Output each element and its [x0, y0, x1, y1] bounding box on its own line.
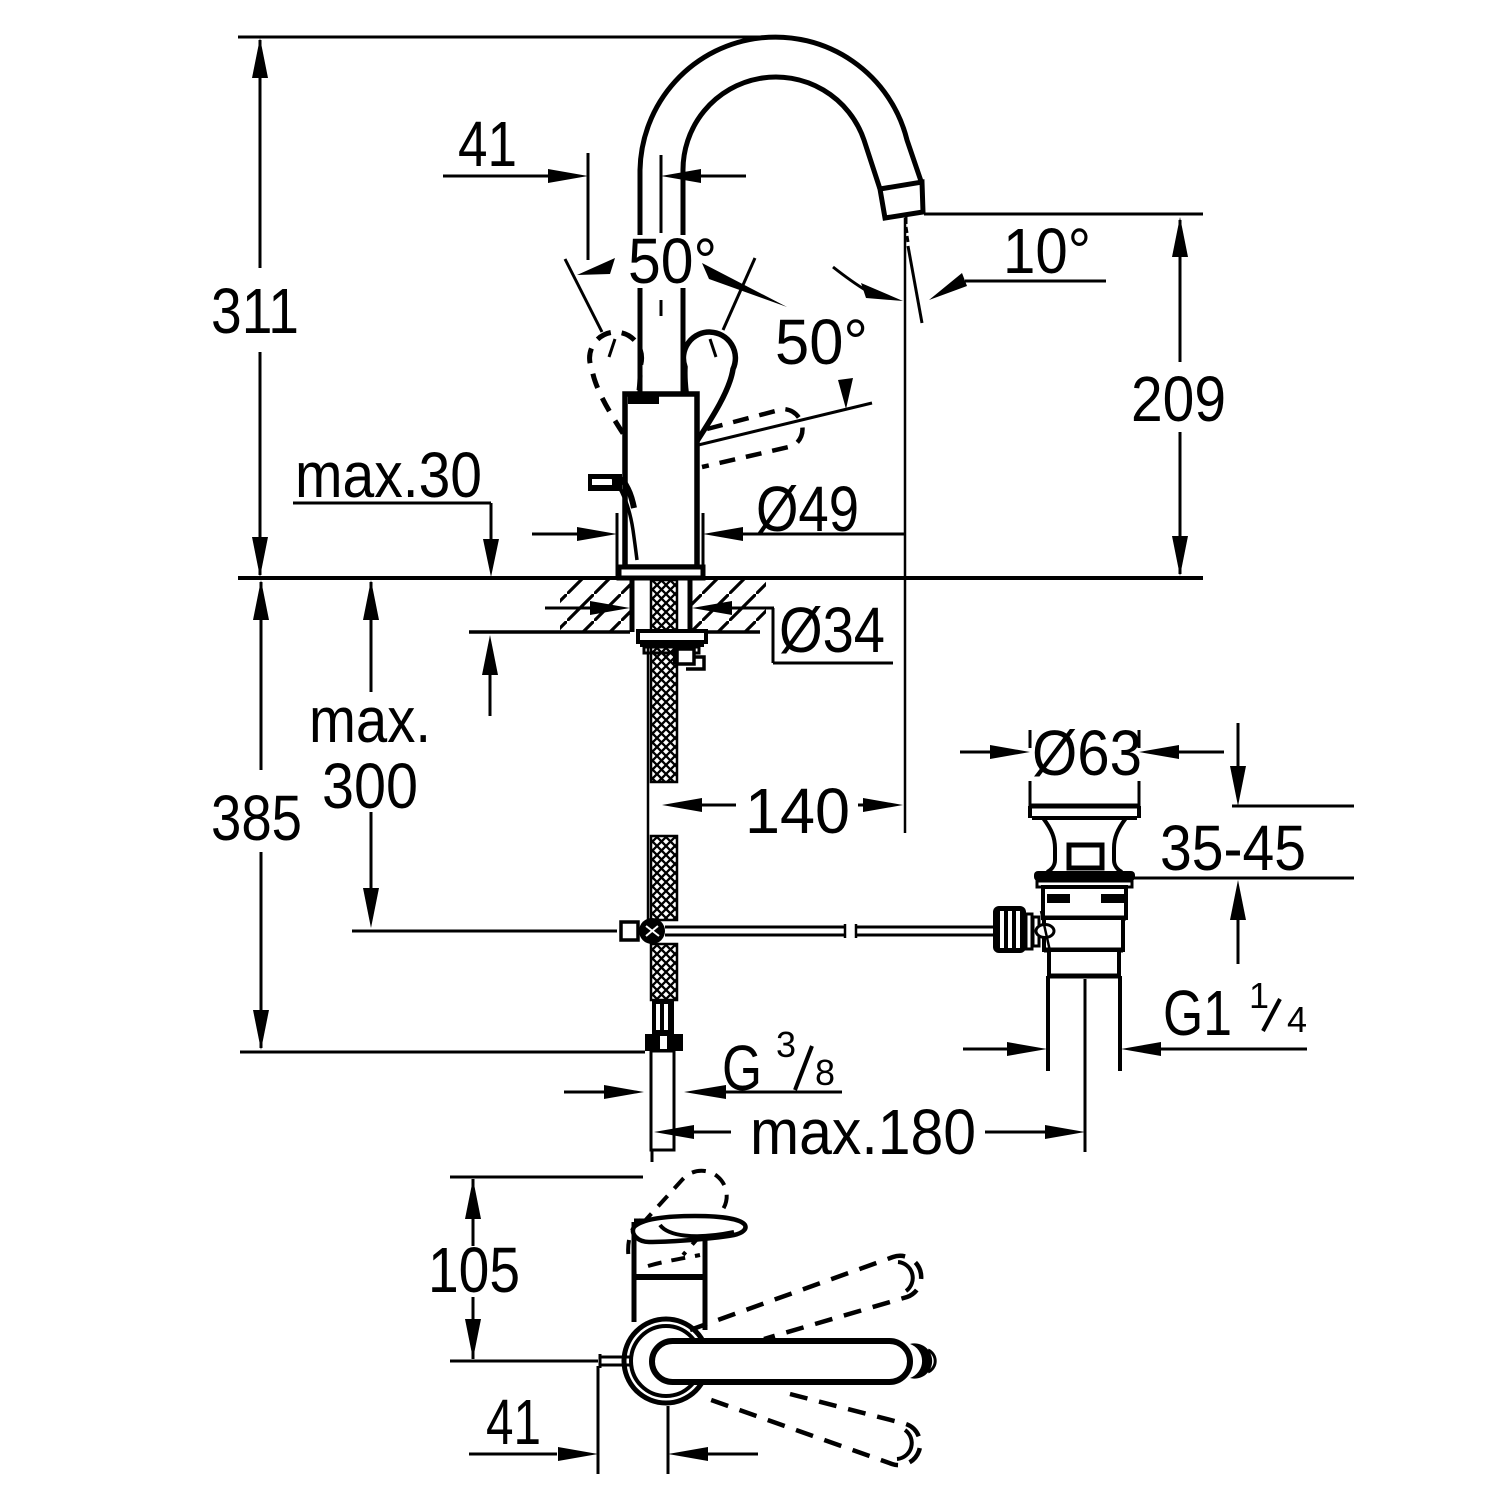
- svg-text:10°: 10°: [1003, 215, 1091, 287]
- angle arrowhead right: [702, 263, 787, 307]
- drain clamp section: [1049, 950, 1119, 976]
- dimension 311 arrow up: [252, 38, 268, 78]
- dimension max.180: [654, 1125, 694, 1139]
- angle 10 deg leader: [965, 280, 1106, 283]
- svg-text:8: 8: [815, 1052, 835, 1093]
- spout gooseneck outer contour: [640, 37, 922, 394]
- drain flange: [1030, 804, 1139, 809]
- counter slab hatching right: [690, 580, 766, 632]
- dimension 140: [662, 798, 702, 812]
- dimension max.300: [370, 582, 373, 692]
- svg-text:311: 311: [211, 275, 299, 347]
- mounting nut: [638, 631, 706, 642]
- top view: dimension 105: [450, 1176, 643, 1179]
- counter underside line: [469, 630, 630, 634]
- top view: handle blade: [633, 1216, 746, 1242]
- svg-text:209: 209: [1131, 363, 1226, 435]
- dimension 209 top reference line: [924, 213, 1203, 216]
- G3/8 nut: [645, 1034, 683, 1051]
- svg-text:max.: max.: [309, 684, 431, 756]
- svg-text:Ø63: Ø63: [1032, 717, 1142, 789]
- G3/8 dimension: [564, 1091, 604, 1094]
- dimension 385 bottom reference line: [240, 1051, 645, 1054]
- G3/8 hose ferrule: [652, 1000, 674, 1034]
- drain square knob: [1069, 845, 1102, 868]
- G3/8 tube: [651, 1051, 674, 1150]
- drain lever pivot: [1036, 925, 1054, 938]
- svg-text:300: 300: [322, 750, 418, 822]
- D63 dimension arrows: [960, 751, 990, 754]
- drain lower body: [1044, 918, 1123, 950]
- riser centerline: [660, 155, 663, 233]
- rod clamp: [621, 922, 638, 940]
- dimension 41 left-pointing arrow at riser axis: [661, 169, 701, 183]
- svg-text:Ø34: Ø34: [779, 594, 885, 666]
- svg-text:G1: G1: [1163, 977, 1232, 1049]
- handle axis line left: [565, 259, 602, 332]
- faucet body: [625, 394, 697, 567]
- aerator outlet (tilted): [880, 182, 923, 218]
- drain: D63 extension lines: [1029, 730, 1032, 748]
- dimension 209 dim line: [1179, 220, 1182, 362]
- svg-text:41: 41: [486, 1386, 541, 1458]
- svg-text:max.180: max.180: [750, 1096, 976, 1168]
- svg-text:G: G: [722, 1032, 762, 1104]
- drain flange ring (black): [1034, 871, 1135, 881]
- drain neck left: [1043, 818, 1055, 872]
- braided supply hose segment 1: [651, 647, 677, 782]
- base flange: [619, 567, 703, 578]
- pop-up rod horizontal: [352, 930, 617, 933]
- top view: spout position lower (dashed): [700, 1394, 920, 1465]
- svg-text:105: 105: [428, 1234, 520, 1306]
- rod pivot ball: [639, 918, 665, 944]
- braided supply hose segment in counter: [651, 580, 677, 631]
- svg-text:385: 385: [211, 782, 302, 854]
- svg-text:50°: 50°: [628, 225, 717, 297]
- pop-up rod vertical: [647, 647, 650, 920]
- counter slab hatching left: [560, 580, 632, 632]
- svg-text:3: 3: [776, 1024, 796, 1065]
- braided supply hose segment 3: [651, 944, 677, 1000]
- pill axis line: [690, 403, 872, 447]
- spout swivel arc arrow: [833, 267, 867, 291]
- dimension 311 vertical line: [259, 40, 262, 268]
- top view: body: [632, 1222, 637, 1277]
- drain neck right: [1114, 818, 1126, 872]
- top reference line (spout max height): [238, 36, 770, 39]
- body marking bar: [628, 396, 659, 404]
- spout gooseneck inner contour: [683, 77, 880, 394]
- pop-up rod knurled connector: [993, 906, 1026, 953]
- dimension D34 label box: [772, 608, 775, 663]
- drain slotted body: [1043, 887, 1126, 918]
- threaded shank through counter: [630, 578, 635, 632]
- lever handle side view: [588, 474, 622, 491]
- top view: spout capsule: [652, 1341, 910, 1382]
- svg-text:35-45: 35-45: [1160, 812, 1306, 884]
- svg-text:Ø49: Ø49: [756, 473, 859, 545]
- dimension 35-45: [1232, 805, 1354, 808]
- lever handle up position (solid teardrop): [683, 332, 735, 441]
- angle 50 deg right arrowhead: [838, 378, 853, 409]
- dimension 41 top dim line + right-pointing arrow: [443, 175, 548, 178]
- lever handle open position (dashed pill): [702, 409, 802, 467]
- drain tailpipe: [1046, 976, 1050, 1071]
- svg-text:max.30: max.30: [295, 439, 482, 511]
- braided supply hose segment 2: [651, 836, 677, 920]
- svg-text:50°: 50°: [775, 306, 868, 378]
- drain ring lip: [1037, 881, 1132, 887]
- handle axis line right: [723, 258, 755, 330]
- angle 50 deg upper text: [622, 235, 722, 288]
- dimension 385: [260, 582, 263, 770]
- dimension G1 1/4: [963, 1048, 1007, 1051]
- rod double line left part: [665, 926, 845, 929]
- counter reference line: [238, 576, 1203, 580]
- svg-text:41: 41: [458, 108, 517, 180]
- svg-text:1: 1: [1249, 975, 1269, 1016]
- dimension 311 arrow down: [252, 537, 268, 577]
- rod double line right part: [856, 926, 993, 929]
- dimension D49 arrows: [532, 533, 577, 536]
- top view: swivel circles: [624, 1319, 708, 1403]
- dimension 41 extension line: [587, 153, 590, 260]
- dimension D49 extension lines: [616, 513, 619, 576]
- top view: spout position upper (dashed): [690, 1256, 921, 1339]
- top view: pop-up rod pin: [600, 1356, 630, 1359]
- svg-text:4: 4: [1287, 999, 1307, 1040]
- water stream dashes: [906, 217, 908, 242]
- svg-text:140: 140: [745, 775, 850, 847]
- drain centerline: [1084, 979, 1087, 1152]
- dimension D34 arrows: [545, 607, 590, 610]
- lever handle up position mirrored (dashed teardrop): [590, 332, 642, 441]
- top view: dashed lever: [628, 1220, 641, 1260]
- angle arrowhead left: [577, 258, 615, 275]
- spout outlet extension line: [904, 218, 907, 833]
